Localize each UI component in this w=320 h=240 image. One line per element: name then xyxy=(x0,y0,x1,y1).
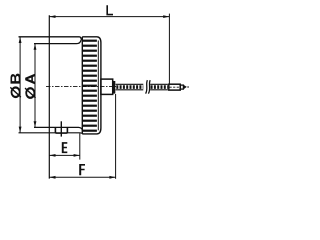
spring band left part xyxy=(116,84,144,90)
label F xyxy=(79,164,85,175)
label L xyxy=(106,5,113,15)
main centerline xyxy=(46,86,116,88)
bulb nub xyxy=(180,85,183,89)
OB top arrow xyxy=(19,37,22,43)
knurl outline xyxy=(82,37,101,134)
E right extension line xyxy=(79,134,81,160)
tab centerline xyxy=(60,121,62,136)
spring collar xyxy=(113,81,116,94)
body left edge / extension line xyxy=(48,15,50,178)
dimension L left arrow xyxy=(49,15,55,18)
break symbol xyxy=(146,80,151,93)
OA top arrow xyxy=(34,44,37,50)
E right arrow xyxy=(74,154,80,157)
dimension L right arrow xyxy=(163,15,169,18)
dimension L right extension line xyxy=(168,14,170,85)
bottom tab (U shape) xyxy=(55,127,67,133)
bulb tail centerline xyxy=(187,86,189,88)
E left arrow xyxy=(49,154,55,157)
dimension E line xyxy=(49,154,80,156)
body top edge OA level xyxy=(34,40,81,43)
label OB (rotated) xyxy=(10,87,21,97)
label OA (rotated) xyxy=(25,88,36,98)
body top edge OB level (extension line to knurl top) xyxy=(19,37,82,40)
dimension F line xyxy=(49,176,115,178)
bulb centerline xyxy=(170,86,180,88)
OB bottom arrow xyxy=(19,127,22,133)
spindle stub xyxy=(101,79,113,94)
bulb tip cone xyxy=(184,85,187,89)
sensor bulb xyxy=(169,84,180,90)
knurl inner rim line xyxy=(97,41,99,131)
F left arrow xyxy=(49,176,55,179)
knurl hatch lines xyxy=(83,41,97,131)
dimension OB line xyxy=(19,37,21,133)
label E xyxy=(62,142,68,153)
F right arrow xyxy=(109,176,115,179)
OA bottom arrow xyxy=(34,121,37,127)
spring band right part xyxy=(150,84,168,90)
dimension L line xyxy=(49,16,169,18)
body bottom edge OA level xyxy=(34,127,83,131)
OB bottom extension line xyxy=(19,133,84,134)
dimension OA line xyxy=(34,44,36,128)
F right extension line xyxy=(115,94,117,179)
